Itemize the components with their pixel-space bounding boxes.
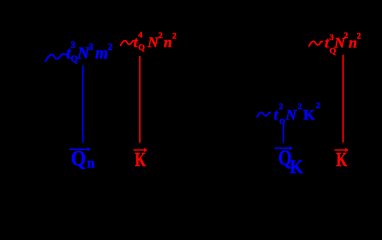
node expr1: ~ t_Q^3 N^3 m^2 (blue) [46,40,113,64]
svg-text:n: n [164,35,172,51]
wire A3 (red drop line) [342,55,344,143]
svg-text:2: 2 [279,101,283,111]
svg-text:K: K [290,157,303,178]
svg-text:3: 3 [330,32,334,42]
node expr3: ~ t_Q^4 N^2 n^2 (red, top right) [309,30,361,56]
svg-text:2: 2 [357,31,361,41]
node label Q_n (blue) [69,146,95,172]
wire squiggle S4 [257,112,270,117]
svg-text:2: 2 [344,30,348,40]
svg-text:2: 2 [158,30,162,40]
node label Q_K (blue) [275,145,304,178]
node expr2: ~ t_Q^4 N^2 n^2 (red) [121,29,177,51]
svg-text:2: 2 [172,31,176,41]
svg-text:K: K [336,149,347,171]
svg-text:Q: Q [138,42,145,52]
wire A2 (red drop line) [139,56,141,143]
svg-text:K: K [303,107,315,123]
wire squiggle S3 [309,41,322,46]
svg-text:n: n [87,156,95,171]
svg-text:Q: Q [71,146,86,171]
wire squiggle S2 [121,41,135,46]
svg-text:2: 2 [108,42,113,52]
svg-text:2: 2 [298,101,302,111]
svg-text:3: 3 [89,42,94,52]
svg-text:Q: Q [279,117,285,126]
svg-text:2: 2 [316,100,320,110]
svg-text:3: 3 [71,40,76,50]
node expr4: ~ t_Q^2 N^2 K^2 (blue, middle right) [257,100,320,126]
wire A1 (blue drop line) [82,66,84,143]
node label K vector (red, left) [133,148,147,171]
svg-text:K: K [135,149,146,171]
wire squiggle S1 [46,54,68,61]
wire A4 (blue drop line) [283,125,285,143]
node label K vector (red, right) [335,148,349,171]
svg-text:N: N [285,107,298,123]
svg-text:m: m [95,43,108,62]
svg-text:4: 4 [138,29,143,39]
